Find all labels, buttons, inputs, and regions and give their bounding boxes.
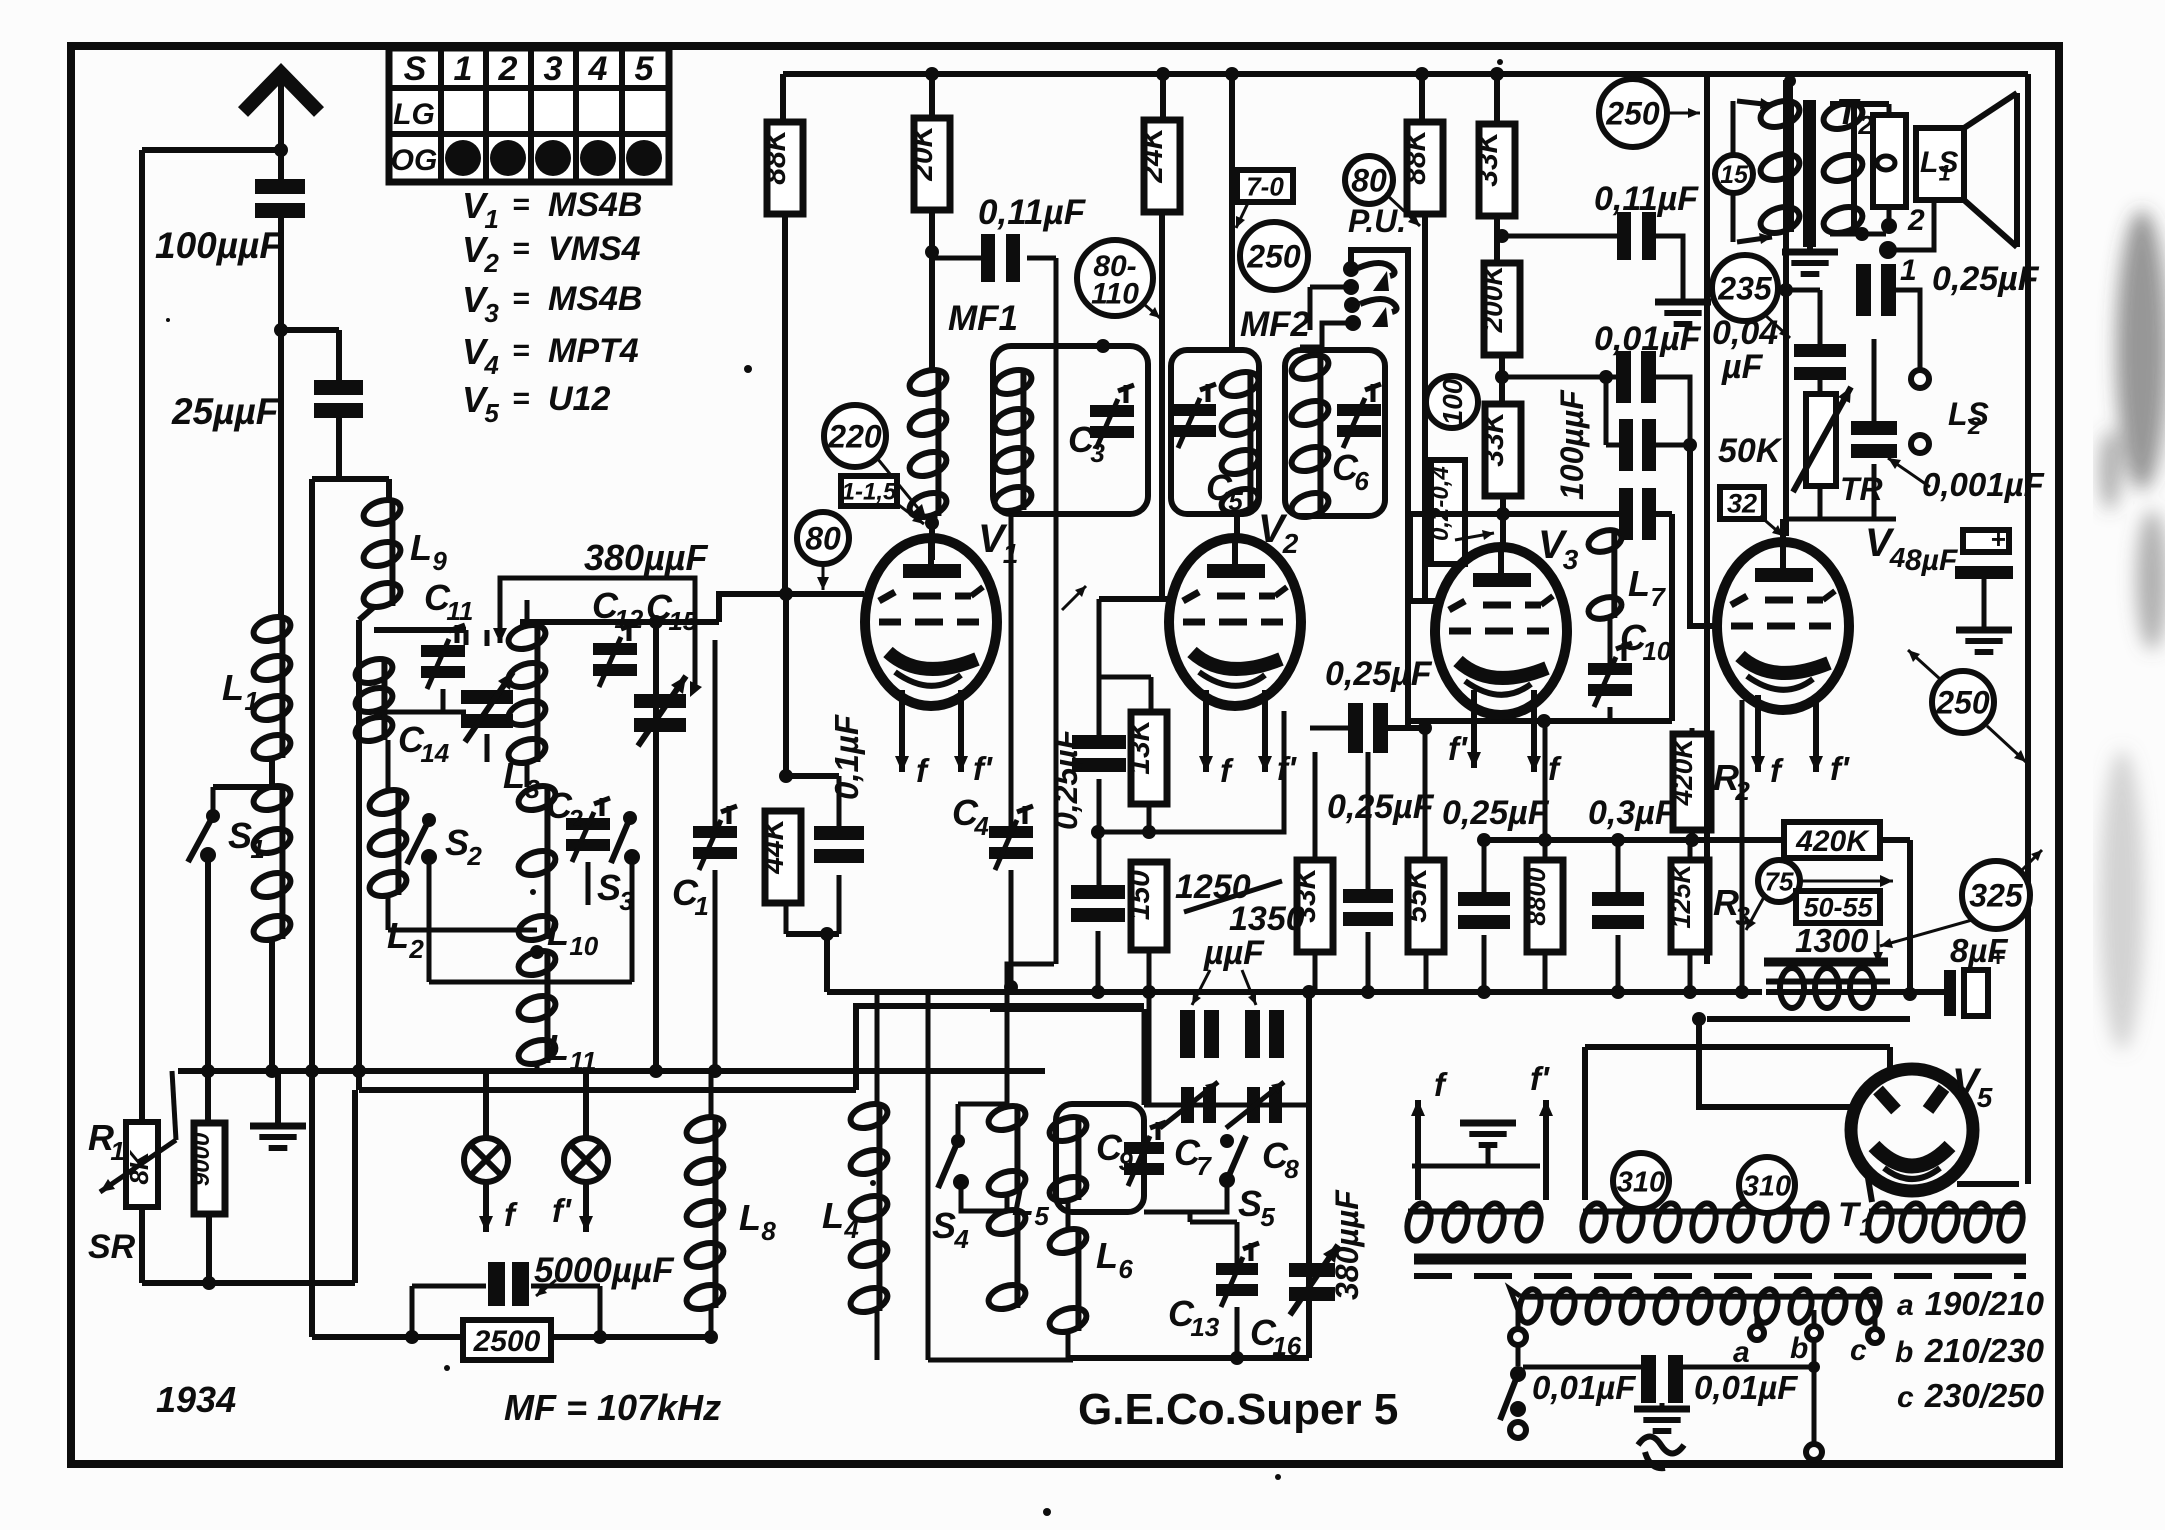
svg-text:P.U.: P.U. (1348, 203, 1406, 239)
label MF1 (948, 299, 1018, 338)
wire (1006, 1308, 1008, 1325)
node terminal 1 (1879, 241, 1917, 287)
svg-text:S: S (228, 815, 252, 856)
node antenna junction (274, 143, 288, 157)
svg-text:1: 1 (694, 891, 708, 921)
svg-text:8µF: 8µF (1905, 544, 1958, 577)
resistor 33K a (1471, 124, 1515, 216)
wire (958, 1104, 1007, 1141)
label 0.25uF b (1327, 788, 1435, 826)
label 1300 (1795, 922, 1869, 959)
capacitor 100uuF (255, 150, 305, 330)
capacitor gang C (461, 672, 513, 742)
svg-text:=: = (512, 232, 530, 265)
node (649, 1064, 663, 1078)
label V1 = MS4B (462, 185, 642, 234)
capacitor 0.11uF b (1617, 212, 1656, 260)
transformer MF2 secondary box (1285, 350, 1385, 516)
svg-text:200K: 200K (1477, 264, 1508, 334)
wire (782, 213, 788, 594)
wire (1237, 1307, 1312, 1358)
label c 230/250 (1897, 1377, 2045, 1414)
wire (1410, 598, 1440, 604)
node (1418, 721, 1432, 735)
svg-text:2: 2 (1907, 204, 1925, 237)
node terminal b (1911, 435, 1929, 453)
svg-text:1-1,5: 1-1,5 (842, 479, 897, 506)
choke winding (1766, 968, 1894, 1008)
transformer MF2 primary box (1171, 350, 1259, 514)
wire (1704, 74, 1710, 964)
transformer MF1 primary (907, 366, 950, 522)
transformer MF2 primary (1219, 368, 1262, 518)
wire (312, 476, 389, 482)
label R2 (1713, 757, 1750, 806)
switch S4 (938, 1134, 969, 1190)
callout Q2-04 (1427, 460, 1494, 564)
svg-text:S: S (404, 50, 427, 88)
wire trimmer row (1144, 1103, 1309, 1108)
resistor 33K v2k (1289, 860, 1333, 952)
label R3 (1713, 882, 1750, 931)
label V3 (1538, 523, 1579, 575)
label 0.11uF b (1594, 180, 1699, 218)
label L9 (410, 527, 447, 576)
capacitor gang C15 (634, 676, 686, 746)
wire (269, 939, 275, 1071)
node (1091, 825, 1156, 839)
wire (1718, 1180, 1720, 1222)
svg-text:150: 150 (1123, 870, 1156, 920)
capacitor 100uuF a (1619, 419, 1656, 471)
ground (1655, 302, 1711, 324)
svg-text:U12: U12 (548, 380, 610, 418)
label L11 (547, 1027, 596, 1076)
coil C14 section (353, 655, 396, 746)
svg-text:125K: 125K (1666, 862, 1696, 929)
wire (929, 74, 935, 120)
svg-text:310: 310 (1743, 1170, 1791, 1202)
arrow f2 V4 (1809, 695, 1850, 787)
wire (1691, 560, 1693, 626)
capacitor 0.1uF (814, 776, 864, 934)
svg-text:SR: SR (88, 1228, 136, 1266)
inductor L5 lower (986, 1206, 1029, 1314)
node (925, 245, 939, 259)
svg-text:µF: µF (1721, 348, 1764, 386)
wire (1786, 290, 1820, 344)
svg-text:=: = (512, 188, 530, 221)
svg-text:1: 1 (110, 1136, 124, 1166)
label C16 (1250, 1312, 1302, 1361)
wire (386, 479, 392, 501)
label 8uF (1950, 932, 2008, 969)
node (530, 945, 544, 959)
callout 325 (1880, 850, 2042, 948)
wire top B+ bus (783, 71, 2028, 77)
wire (932, 208, 935, 520)
transformer T1 fil 2 (1579, 1201, 1831, 1243)
svg-text:0,25µF: 0,25µF (1048, 728, 1084, 830)
svg-text:0,25µF: 0,25µF (1325, 655, 1433, 693)
wire (786, 900, 839, 934)
label 0.25uF rot (1048, 728, 1084, 830)
tube V3 (1435, 547, 1567, 715)
wire (213, 758, 281, 787)
svg-text:5: 5 (1977, 1082, 1993, 1113)
svg-text:10: 10 (569, 931, 598, 961)
svg-text:420K: 420K (1667, 737, 1698, 807)
arrow f T1 (1411, 1066, 1448, 1200)
node (1495, 229, 1509, 243)
svg-text:1: 1 (250, 834, 264, 864)
wire (1655, 236, 1683, 302)
inductor L11 (516, 947, 559, 1069)
svg-text:325: 325 (1969, 878, 2024, 914)
transformer MF2 secondary (1289, 351, 1332, 522)
svg-text:1: 1 (1859, 1212, 1873, 1242)
node (1611, 833, 1625, 999)
wire AVC bus (827, 989, 1762, 995)
node terminal 2 (1881, 204, 1925, 237)
svg-text:f': f' (552, 1192, 572, 1229)
wire bus3 y1090 (359, 1006, 1144, 1090)
inductor L1 lower (251, 782, 294, 945)
valve socket table (389, 48, 669, 182)
wire (1144, 1212, 1190, 1263)
switch P.U. selector (1300, 250, 1408, 728)
wire (820, 927, 834, 992)
node (1004, 980, 1018, 994)
label MF2 (1240, 305, 1311, 344)
callout 7-0 (1236, 170, 1293, 228)
transformer T1 fil 3 (1865, 1201, 2027, 1243)
capacitor C10 (1588, 643, 1632, 707)
svg-text:0,25µF: 0,25µF (1442, 794, 1550, 832)
wire (1740, 700, 1745, 992)
svg-text:14: 14 (420, 738, 449, 768)
label MF107 (504, 1387, 721, 1428)
svg-text:380µµF: 380µµF (1329, 1189, 1365, 1300)
wire (1907, 840, 1913, 992)
wire (1830, 207, 1889, 241)
wire (142, 147, 281, 153)
label b 210/230 (1895, 1332, 2045, 1369)
svg-text:0,25µF: 0,25µF (1327, 788, 1435, 826)
svg-text:7: 7 (1196, 1151, 1212, 1181)
label C5 (1206, 467, 1243, 516)
svg-text:1: 1 (1900, 254, 1917, 287)
label 8uF v4 (1905, 544, 1958, 577)
svg-text:220: 220 (827, 419, 882, 455)
svg-text:250: 250 (1935, 685, 1990, 721)
svg-text:230/250: 230/250 (1924, 1377, 2045, 1414)
wire (1099, 675, 1151, 680)
svg-text:5000µµF: 5000µµF (534, 1251, 675, 1290)
tube V2 (1169, 538, 1301, 706)
wire (1159, 210, 1165, 598)
svg-text:8800: 8800 (1521, 867, 1551, 925)
label 25uuF (171, 391, 280, 432)
ground (250, 1071, 306, 1148)
wire tap c (1850, 1296, 1882, 1367)
svg-text:f': f' (1530, 1060, 1550, 1097)
inductor L4 (848, 1100, 891, 1317)
svg-text:1: 1 (244, 686, 258, 716)
svg-text:1350: 1350 (1229, 900, 1305, 938)
node (1302, 985, 1316, 999)
svg-text:33K: 33K (1477, 409, 1510, 466)
resistor 9000 (188, 1123, 225, 1214)
label 0.04uF (1712, 314, 1778, 386)
callout 310 a (1613, 1153, 1669, 1209)
label S2 (445, 822, 482, 871)
node terminal b2 (1806, 1444, 1822, 1460)
node (1490, 67, 1504, 81)
noise (2100, 210, 2165, 1050)
svg-text:1934: 1934 (156, 1379, 236, 1420)
arrow (1873, 930, 1883, 964)
callout 75 (1746, 860, 1893, 930)
transformer T1 primary (1516, 1287, 1883, 1325)
svg-text:L: L (739, 1197, 761, 1238)
transformer MF1 secondary (992, 366, 1035, 516)
label 0.3uF (1588, 794, 1677, 832)
inductor L5 upper (986, 1102, 1029, 1200)
svg-text:80: 80 (805, 521, 841, 557)
node (1477, 833, 1491, 999)
node terminal mains2 (1510, 1422, 1526, 1438)
transformer MF1 secondary box (993, 346, 1148, 514)
svg-text:3: 3 (1563, 544, 1579, 575)
inductor L8 (684, 1113, 727, 1314)
svg-text:50K: 50K (1718, 432, 1783, 470)
wire (961, 1182, 1003, 1211)
svg-text:S: S (597, 867, 621, 908)
wire 380uuF bracket (493, 578, 702, 697)
label GECo Super 5 (1078, 1385, 1398, 1434)
wire tap b (1790, 1310, 1821, 1365)
svg-text:+: + (1990, 524, 2005, 554)
resistor 8800 (1521, 860, 1563, 952)
svg-text:MS4B: MS4B (548, 186, 642, 224)
wire anode top (1234, 512, 1240, 534)
ground (1956, 630, 2012, 652)
wire (429, 904, 537, 906)
arrow f V1 (895, 690, 930, 789)
switch S1 (188, 787, 220, 863)
capacitor 8uF b (1894, 942, 2005, 1016)
capacitor C11 (421, 625, 465, 689)
capacitor 0.01uF m1 (1641, 1355, 1683, 1403)
arrow f V2 (1199, 690, 1234, 789)
wire bus2 y1071 (178, 1068, 1045, 1074)
svg-text:9000: 9000 (188, 1132, 215, 1186)
svg-text:2500: 2500 (473, 1325, 541, 1358)
label 0.25uF out (1932, 260, 2040, 298)
svg-text:b: b (1790, 1332, 1808, 1365)
wire (990, 1006, 1144, 1012)
label R1 (88, 1117, 125, 1166)
svg-text:5: 5 (1228, 486, 1243, 516)
wire (1494, 213, 1500, 263)
arrow f V4 (1751, 695, 1784, 789)
wire (312, 1071, 711, 1337)
node (1692, 1012, 1706, 1026)
capacitor 0.25uF out (1820, 264, 1920, 370)
svg-text:190/210: 190/210 (1925, 1285, 2045, 1322)
callout 50-55 (1796, 891, 1880, 923)
svg-text:2: 2 (466, 841, 482, 871)
svg-text:110: 110 (1091, 278, 1139, 311)
svg-text:2: 2 (567, 804, 583, 834)
svg-text:1300: 1300 (1795, 922, 1869, 959)
svg-text:OG: OG (391, 144, 438, 177)
wire (172, 1071, 176, 1140)
label 1350 (1229, 900, 1305, 938)
wire (1688, 840, 1693, 992)
speaker LS1 coil (1873, 115, 1906, 207)
wire (1655, 438, 1697, 452)
label L3 (503, 755, 540, 804)
svg-text:3: 3 (484, 298, 499, 328)
svg-text:L: L (1012, 1182, 1034, 1223)
wire (1707, 1016, 1910, 1022)
svg-text:3: 3 (1090, 438, 1105, 468)
label S3 (597, 867, 634, 916)
capacitor C3 (1090, 385, 1134, 449)
node (1779, 283, 1793, 297)
wire (2025, 74, 2031, 1184)
callout 80-110 (1077, 240, 1160, 318)
capacitor C16 (1289, 1245, 1338, 1315)
wire (1909, 1018, 1911, 1020)
wire (1160, 74, 1166, 123)
lamp f (464, 1071, 518, 1233)
wire (1699, 1019, 1853, 1107)
antenna (243, 73, 319, 150)
wire rail (1484, 837, 1910, 843)
svg-text:0,11µF: 0,11µF (978, 193, 1087, 232)
wire anode top (1780, 519, 1786, 538)
wire (653, 622, 659, 1071)
svg-text:LG: LG (393, 98, 435, 131)
capacitor TR (1851, 339, 1897, 519)
wire (1585, 1047, 1890, 1200)
svg-text:7-0: 7-0 (1246, 171, 1284, 201)
label L7 (1628, 563, 1666, 612)
svg-text:S: S (445, 822, 469, 863)
wire (1236, 1212, 1238, 1240)
wire (1502, 234, 1617, 239)
svg-text:MF2: MF2 (1240, 305, 1311, 344)
label 50K (1718, 432, 1783, 470)
svg-text:5: 5 (635, 50, 655, 88)
node (1683, 985, 1697, 999)
svg-text:0,11µF: 0,11µF (1594, 180, 1699, 218)
wire (206, 1214, 212, 1283)
svg-text:1: 1 (1939, 160, 1951, 185)
resistor R2 420K (1667, 734, 1711, 830)
arrow (1888, 458, 1930, 487)
node (201, 1064, 366, 1078)
wire (1097, 599, 1102, 735)
transformer T1 core (1414, 1254, 2026, 1265)
capacitor C12 (593, 623, 637, 687)
noise specks (166, 59, 1503, 1516)
wire (928, 1358, 1073, 1363)
svg-text:380µµF: 380µµF (584, 537, 709, 578)
svg-text:4: 4 (483, 350, 499, 380)
label C7 (1174, 1132, 1212, 1181)
svg-text:15: 15 (1720, 161, 1749, 189)
svg-text:4: 4 (953, 1224, 969, 1254)
capacitor 0.25uF grid2 (1071, 885, 1125, 992)
label C15 (646, 587, 698, 636)
label T1 (1838, 1196, 1874, 1242)
svg-text:0,04: 0,04 (1712, 314, 1778, 352)
callout 250 right (1908, 650, 2026, 762)
capacitor C1 (693, 806, 737, 870)
capacitor 0.25uF coupling (1310, 703, 1425, 753)
resistor 88K (759, 122, 803, 214)
svg-text:0,25µF: 0,25µF (1932, 260, 2040, 298)
wire (1691, 727, 1693, 729)
wire (1068, 1355, 1309, 1361)
label V2 (1258, 507, 1299, 559)
svg-text:VMS4: VMS4 (548, 230, 641, 268)
capacitor 0.11uF (932, 234, 1056, 282)
node (1091, 985, 1105, 999)
capacitor C13 (1216, 1243, 1259, 1307)
svg-text:6: 6 (1118, 1254, 1133, 1284)
svg-text:1: 1 (484, 204, 498, 234)
resistor 150 (1123, 862, 1167, 950)
label 380uuF (584, 537, 709, 578)
transformer T2 secondary (1820, 98, 1865, 237)
svg-text:L: L (547, 912, 569, 953)
svg-text:2: 2 (1282, 528, 1299, 559)
label T2 (1836, 91, 1873, 140)
node terminal mains1 (1510, 1329, 1526, 1345)
wire anode top cap (925, 516, 939, 560)
arrow f2 T1 (1530, 1060, 1553, 1200)
inductor L7 (1586, 526, 1625, 623)
inductor L10 (516, 782, 559, 945)
resistor 20K (906, 118, 950, 210)
node (1096, 339, 1110, 353)
label C14 (398, 719, 450, 768)
svg-text:0,01µF: 0,01µF (1694, 1369, 1798, 1406)
svg-text:6: 6 (1354, 466, 1369, 496)
inductor L2 (367, 786, 410, 901)
capacitor C4 (989, 806, 1033, 870)
inductor L6 upper (1047, 1113, 1090, 1206)
node (925, 67, 939, 81)
wire (429, 857, 632, 982)
label C13 (1168, 1293, 1220, 1342)
resistor 24K (1136, 120, 1180, 212)
svg-text:20K: 20K (906, 123, 939, 181)
wire (713, 640, 718, 1071)
wire (1502, 375, 1616, 380)
choke core (1764, 958, 1888, 967)
svg-text:3: 3 (619, 886, 634, 916)
label V3 = MS4B (462, 279, 642, 328)
ground (1634, 1403, 1690, 1431)
wire (1313, 752, 1318, 992)
capacitor padder 2 (1245, 1010, 1284, 1058)
